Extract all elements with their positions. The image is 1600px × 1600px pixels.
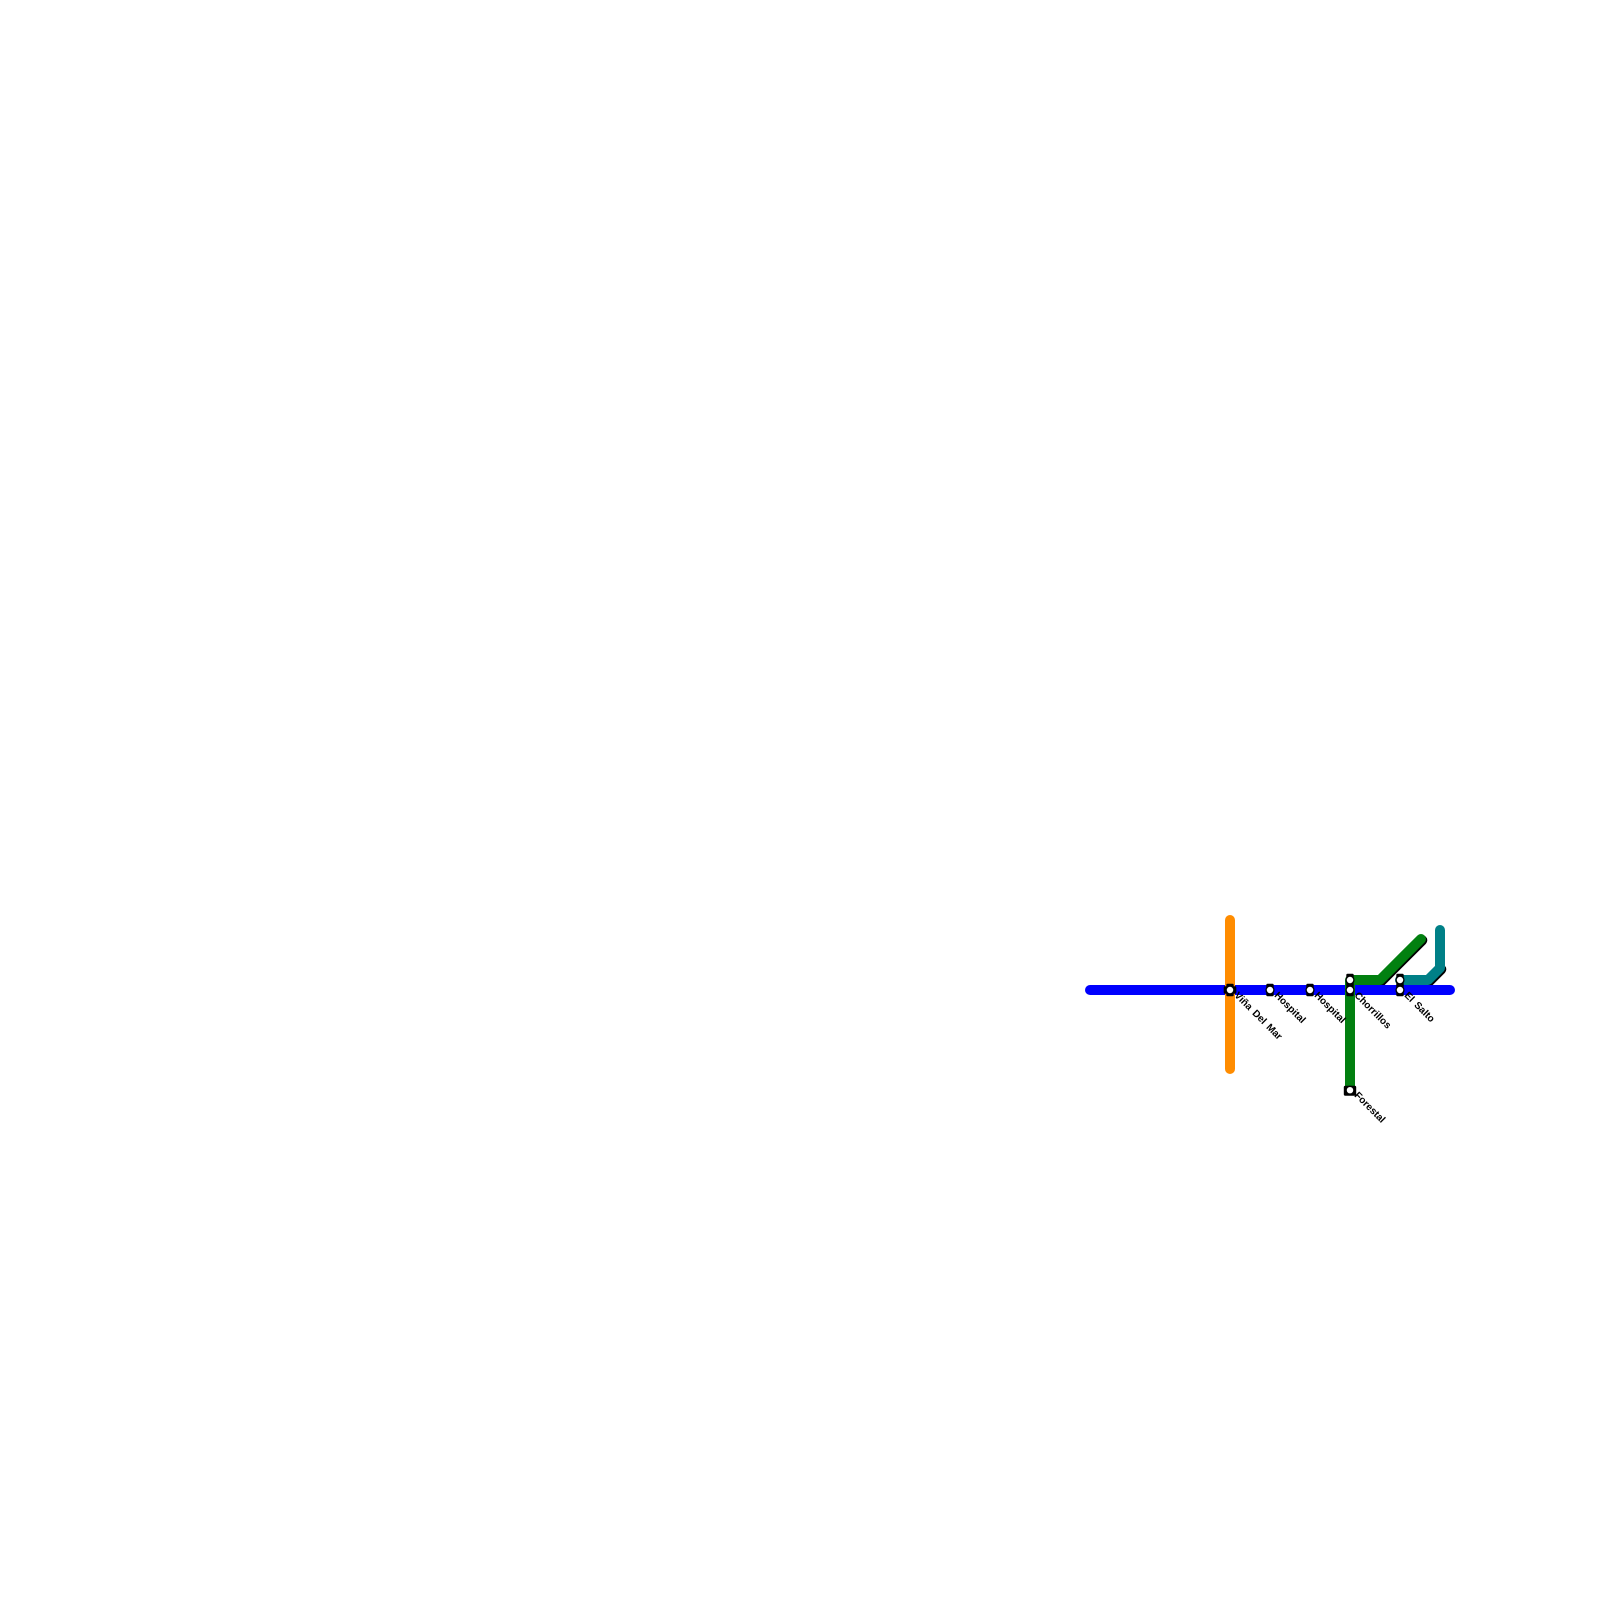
station Forestal marker (green line terminus) [1344,1086,1356,1096]
blue line [1090,985,1450,995]
teal line diagonal shadow [1429,969,1441,981]
green line [1350,939,1421,1090]
station Hospital 1 marker [1266,984,1274,997]
station Hospital 2 marker [1306,984,1314,997]
station Chorrillos upper marker (green line) [1346,974,1354,987]
station Chorrillos marker (blue line) [1346,984,1354,997]
station El Salto upper marker (teal line) [1396,974,1404,987]
teal line [1400,930,1440,980]
green line diagonal shadow [1381,940,1422,981]
station Vina Del Mar marker [1224,984,1237,997]
orange line [1225,920,1235,1069]
station El Salto marker (blue line) [1396,984,1404,997]
